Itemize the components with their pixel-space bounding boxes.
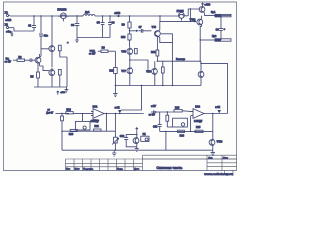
svg-text:КТ815: КТ815 bbox=[177, 10, 185, 13]
svg-text:C7: C7 bbox=[139, 27, 143, 29]
capacitor C1 (from rail to X2 wire) bbox=[32, 16, 36, 31]
svg-text:R8: R8 bbox=[102, 47, 106, 50]
capacitor C2 electrolytic bbox=[39, 34, 49, 57]
transistor VT13 (x200 lower) bbox=[198, 61, 204, 85]
capacitor C7 (series to VT6 base) bbox=[139, 29, 152, 33]
svg-text:U1.2: U1.2 bbox=[93, 120, 99, 123]
ground bus mid bbox=[77, 37, 110, 39]
svg-text:Лит.: Лит. bbox=[208, 157, 213, 159]
resistor R22 (x167 to fb) bbox=[166, 112, 169, 127]
resistor R14 (x157 vertical, ticks) bbox=[156, 37, 159, 62]
svg-text:DA2: DA2 bbox=[195, 106, 200, 109]
ground from bus x115 bbox=[113, 86, 117, 97]
resistor R13 (x115 vertical) bbox=[114, 68, 118, 86]
wire lower mid cluster bbox=[126, 131, 137, 138]
capacitor C9 electrolytic right bbox=[219, 17, 223, 40]
resistor R11 (right of VT5) bbox=[135, 48, 138, 53]
capacitor C12 bbox=[124, 138, 137, 147]
resistor R21 bbox=[93, 129, 101, 131]
connector X1 (input +supply, top-left) bbox=[6, 14, 10, 16]
ground lower mid bbox=[135, 147, 139, 152]
svg-text:Силовая часть: Силовая часть bbox=[157, 166, 183, 170]
wire VT3 emitter to VT2 base bbox=[40, 66, 49, 71]
svg-text:к ВУ: к ВУ bbox=[151, 105, 156, 108]
svg-text:Подп.: Подп. bbox=[117, 169, 123, 171]
svg-text:R24: R24 bbox=[180, 135, 185, 138]
transistor VT5 bbox=[127, 47, 133, 61]
wire box bottom bbox=[167, 126, 172, 128]
svg-text:от ВУ: от ВУ bbox=[149, 114, 156, 117]
output node wire bbox=[157, 60, 200, 62]
svg-text:C4: C4 bbox=[71, 24, 75, 27]
transistor VT6 (x157 top) bbox=[155, 30, 161, 37]
format cell bottom right bbox=[224, 171, 233, 177]
resistor R9 (rail drop chain) bbox=[128, 16, 131, 34]
wire U2 output bbox=[204, 113, 228, 115]
supply arrow lower mid bbox=[136, 128, 138, 132]
svg-text:R25: R25 bbox=[196, 126, 201, 129]
wire bias tap with arrow bbox=[130, 30, 137, 32]
capacitor C6 bbox=[108, 16, 112, 38]
wire x160 rail drop bbox=[159, 16, 161, 21]
wire VT1 to VT2 bbox=[51, 54, 53, 67]
svg-text:R13: R13 bbox=[109, 70, 114, 73]
ground bus left bbox=[34, 86, 67, 88]
lower ground bus bbox=[62, 149, 213, 151]
wire U1 output bbox=[104, 113, 144, 115]
svg-text:R5: R5 bbox=[30, 75, 34, 78]
wire VT12 emitter down bbox=[200, 26, 201, 40]
svg-text:C6: C6 bbox=[111, 22, 115, 25]
wire C4 drop bbox=[76, 16, 78, 23]
title block table bbox=[66, 155, 238, 170]
ground symbol left bbox=[65, 87, 69, 92]
wire bootstrap x190 bbox=[189, 9, 191, 21]
transistor VT7 (lower of x130 chain) bbox=[127, 61, 133, 86]
svg-text:R21: R21 bbox=[94, 125, 99, 128]
svg-text:R23: R23 bbox=[175, 107, 180, 110]
inductor L1 bbox=[83, 15, 129, 17]
resistor R10 bbox=[128, 34, 131, 47]
svg-text:C2+: C2+ bbox=[44, 35, 49, 38]
svg-text:ДатчТ: ДатчТ bbox=[46, 111, 54, 114]
svg-text:R18: R18 bbox=[66, 108, 71, 111]
fuse FU1 bbox=[215, 14, 231, 16]
feedback wire U2 bbox=[160, 114, 213, 151]
resistor R8 bbox=[98, 50, 116, 52]
svg-text:R14: R14 bbox=[151, 51, 156, 54]
ground symbol lower bbox=[112, 150, 116, 156]
transistor VT15 bbox=[133, 137, 139, 146]
ground at X2 wire bbox=[11, 31, 14, 37]
transistor VT2 bbox=[49, 68, 55, 87]
capacitor C5 electrolytic bbox=[101, 16, 105, 38]
wire output to feedback column bbox=[200, 64, 227, 114]
trimmer resistor R27 (lower mid-left) bbox=[112, 114, 118, 151]
svg-text:VT8: VT8 bbox=[146, 70, 151, 73]
wire lower input bbox=[55, 112, 69, 114]
resistor R23 (into U2) bbox=[174, 110, 193, 112]
wire VT11 emitter to fuse line bbox=[205, 13, 215, 15]
svg-text:Пр1: Пр1 bbox=[211, 12, 216, 14]
svg-text:Дата: Дата bbox=[134, 169, 140, 171]
transistor VT1 bbox=[49, 44, 55, 54]
svg-text:C9: C9 bbox=[216, 28, 220, 31]
svg-text:K1: K1 bbox=[143, 133, 147, 136]
resistor R18 bbox=[66, 112, 93, 114]
svg-text:R20: R20 bbox=[69, 133, 74, 136]
resistor R2 (input series) bbox=[17, 59, 29, 61]
wire input bbox=[13, 59, 17, 61]
transistor VT8 bbox=[152, 61, 158, 85]
svg-text:Др1: Др1 bbox=[85, 11, 90, 14]
box U2.2 bbox=[173, 118, 188, 127]
svg-text:Пр2: Пр2 bbox=[212, 36, 217, 38]
svg-text:к ОК: к ОК bbox=[115, 107, 121, 109]
arrow net from VU bbox=[151, 111, 174, 113]
supply mark node bbox=[67, 41, 69, 44]
resistor R20 bbox=[70, 129, 77, 131]
svg-text:+40В: +40В bbox=[204, 4, 210, 7]
svg-text:общ: общ bbox=[6, 31, 11, 34]
capacitor C3 (series, input) bbox=[29, 58, 35, 62]
svg-text:C5: C5 bbox=[97, 22, 101, 25]
wire output column x200 bbox=[199, 40, 201, 61]
arrow connector U2 out bbox=[217, 110, 221, 113]
connector X2 (lower-left) bbox=[6, 26, 14, 28]
capacitor C13 (x160 down) bbox=[158, 112, 162, 131]
svg-text:Вых.пр: Вых.пр bbox=[176, 58, 186, 61]
svg-text:VT5: VT5 bbox=[121, 51, 126, 54]
arrow into VT9 base bbox=[194, 20, 197, 22]
resistor R25 bbox=[195, 130, 203, 132]
svg-text:VT6: VT6 bbox=[152, 26, 157, 29]
svg-text:КТ817Б: КТ817Б bbox=[57, 8, 66, 11]
resistor R24 bbox=[178, 130, 185, 132]
wire rail to VT10 bbox=[129, 15, 178, 17]
wire VT6 loop bbox=[160, 34, 173, 43]
svg-text:+: + bbox=[224, 28, 226, 31]
transistor VT16 (bottom right) bbox=[209, 131, 215, 150]
resistor R5 (below VT3) bbox=[37, 63, 40, 87]
svg-text:+15В: +15В bbox=[60, 92, 66, 94]
svg-text:C12: C12 bbox=[120, 135, 125, 138]
svg-text:C1: C1 bbox=[28, 25, 32, 28]
svg-text:X2: X2 bbox=[5, 23, 9, 27]
wire drive from op-amp to bus bbox=[121, 86, 142, 111]
wire jog up to y9 bbox=[188, 9, 200, 16]
transistor VT12 bbox=[197, 16, 203, 27]
svg-text:X1: X1 bbox=[5, 10, 9, 14]
node +36V bbox=[118, 15, 119, 16]
arrow connector U1 out bbox=[118, 110, 122, 113]
supply arrow left op-amp bbox=[57, 91, 59, 95]
resistor R4 (right of VT1) bbox=[58, 45, 67, 87]
wire VT5 junction to VT8 base bbox=[130, 60, 151, 71]
transistor VT4 (series pass on rail) bbox=[58, 13, 69, 22]
svg-text:к ЗП: к ЗП bbox=[215, 107, 220, 109]
op-amp U1 bbox=[91, 109, 104, 119]
svg-text:R10: R10 bbox=[121, 36, 126, 39]
svg-text:140УД7: 140УД7 bbox=[194, 120, 203, 123]
relay K1 box bbox=[141, 136, 149, 141]
svg-text:VT7: VT7 bbox=[121, 70, 126, 73]
wire top rail from X1 bbox=[10, 15, 83, 17]
border frame bbox=[4, 2, 237, 171]
svg-text:Лист: Лист bbox=[75, 169, 80, 171]
title block small labels bbox=[66, 157, 228, 170]
wire rail to L1 bbox=[69, 15, 83, 17]
resistor R6 (right of VT2) bbox=[58, 69, 61, 87]
feedback wire U1 bbox=[62, 114, 115, 151]
feedback box U1 (optocoupler) bbox=[75, 114, 90, 131]
emitter bus bbox=[115, 85, 201, 87]
ground symbol mid bbox=[75, 38, 79, 43]
svg-text:от ПУ: от ПУ bbox=[5, 60, 12, 63]
svg-text:+36В: +36В bbox=[114, 12, 120, 15]
transistor VT11 (top right) bbox=[199, 6, 205, 13]
connector +40V top bbox=[201, 3, 203, 6]
svg-text:DA1: DA1 bbox=[93, 105, 98, 108]
capacitor C4 bbox=[75, 23, 80, 37]
svg-text:от ВУ: от ВУ bbox=[89, 52, 96, 55]
svg-text:Изм: Изм bbox=[66, 169, 70, 171]
svg-text:+40B: +40B bbox=[5, 19, 11, 22]
arrow on bias tap bbox=[136, 30, 139, 32]
svg-text:VT16: VT16 bbox=[217, 141, 223, 144]
wire net R8 column bbox=[114, 51, 116, 67]
fuse FU2 bbox=[200, 39, 231, 41]
op-amp U2 bbox=[191, 109, 204, 119]
wire R bias drop x41 bbox=[40, 16, 42, 33]
svg-text:www.radiolamp.ru: www.radiolamp.ru bbox=[203, 172, 233, 176]
wire VT6 collector up and to right rail bbox=[160, 21, 196, 30]
svg-text:R9: R9 bbox=[122, 23, 126, 26]
resistor R15 (right of VT8) bbox=[161, 61, 164, 85]
svg-text:C13: C13 bbox=[153, 125, 158, 128]
svg-text:Лист: Лист bbox=[223, 157, 228, 159]
resistor R17 (input to feedback node) bbox=[61, 113, 64, 131]
svg-text:№ докум.: № докум. bbox=[83, 168, 93, 171]
wire loop to bus bbox=[171, 43, 173, 86]
ground bottom right bbox=[211, 150, 215, 155]
transistor VT10 (series on rail right) bbox=[179, 13, 189, 21]
wire VT1 chain drop x52 bbox=[51, 16, 53, 44]
wire X2 to node bbox=[14, 28, 34, 31]
transistor VT3 (input) bbox=[35, 54, 41, 66]
